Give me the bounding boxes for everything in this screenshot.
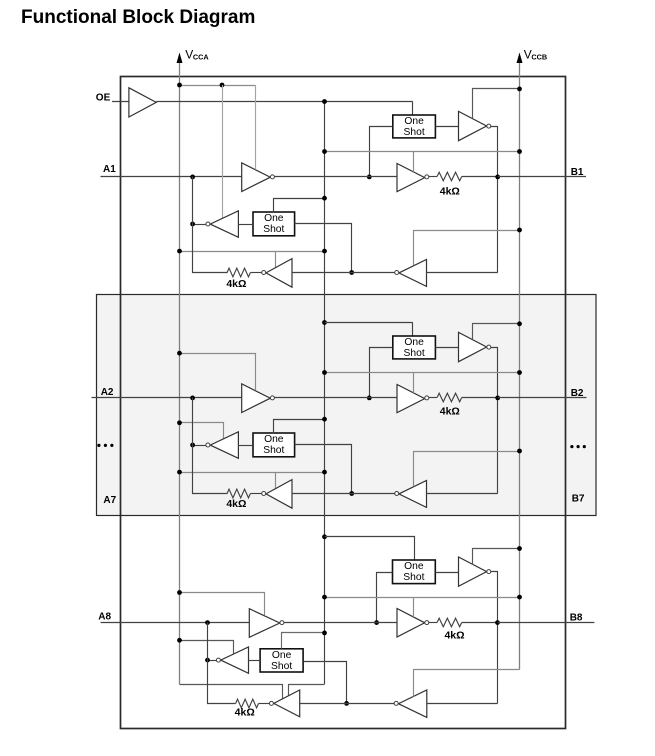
node junction — [190, 222, 195, 227]
svg-text:One: One — [264, 434, 284, 445]
node VCCA tap — [177, 420, 182, 425]
wire U1B output to U1E — [292, 272, 395, 274]
node VCCA tap — [177, 249, 182, 254]
svg-text:B1: B1 — [571, 167, 584, 178]
node B internal — [495, 396, 500, 401]
pin wire A2 — [92, 397, 242, 399]
buffer U2B B-side input — [399, 481, 427, 508]
node VCCB tap — [517, 449, 522, 454]
wire OS3 to U2F — [238, 445, 253, 447]
node VCCA tap — [177, 470, 182, 475]
wire U8C to resistor R15 — [429, 622, 437, 624]
wire down into OS2 top — [412, 102, 414, 116]
enable wire OE branch — [289, 685, 325, 696]
pin wire A8 — [101, 622, 250, 624]
svg-text:One: One — [404, 116, 424, 127]
buffer U1F one-shot driver — [210, 211, 238, 238]
node VCCB tap — [517, 370, 522, 375]
resistor R4 4k — [227, 489, 250, 498]
one-shot OS15 — [260, 649, 303, 672]
node OE tap — [322, 470, 327, 475]
pin wire A1 — [101, 176, 242, 178]
resistor R1 4k — [437, 172, 462, 181]
node junction — [349, 270, 354, 275]
wire down into U2C — [413, 373, 415, 393]
wire OS2 to U1D — [435, 126, 458, 128]
resistor R2 4k — [227, 268, 250, 277]
buffer U8C B-side driver — [397, 609, 425, 638]
wire B line to pin B1 — [498, 176, 586, 178]
OE input wire — [112, 101, 129, 103]
wire U2C to resistor R3 — [429, 397, 437, 399]
node OE tap — [322, 196, 327, 201]
one-shot OS4 — [393, 336, 436, 359]
node VCCB tap — [517, 321, 522, 326]
inverting bubble U8C — [425, 621, 429, 625]
inverting bubble U2A — [270, 396, 274, 400]
wire R4 to A node — [193, 398, 228, 494]
inverting bubble U2F — [206, 443, 210, 447]
svg-text:Shot: Shot — [404, 127, 425, 138]
wire down into U1E — [275, 251, 277, 268]
resistor R3 4k — [437, 393, 462, 402]
wire U8F output to A node — [208, 660, 217, 662]
inverting bubble U8F — [216, 658, 220, 662]
svg-text:4kΩ: 4kΩ — [444, 629, 464, 641]
wire U1E to resistor R2 — [250, 272, 261, 274]
inverting bubble U8D — [487, 570, 491, 574]
node OE tap OS4 — [322, 320, 327, 325]
wire U8B output to OS15 input — [304, 662, 347, 704]
wire down into U2E — [275, 472, 277, 489]
VCCA supply wire to U8F — [180, 641, 234, 655]
buffer U2E A-side driver — [266, 480, 292, 509]
inverting bubble U1C — [425, 175, 429, 179]
inverting bubble U1F — [206, 222, 210, 226]
VCCB supply wire to U1D — [473, 89, 520, 119]
wire OS4 to U2D — [435, 347, 458, 349]
wire U2F output to A node — [193, 445, 206, 447]
wire OS1 to U1F — [238, 224, 253, 226]
shaded repeated-channel block A2-A7/B2-B7 — [97, 295, 597, 516]
VCCB supply wire to U2B — [414, 452, 520, 487]
wire R15 to B node — [462, 622, 498, 624]
one-shot OS2 — [393, 115, 436, 138]
wire U8D output to B node — [491, 572, 498, 704]
svg-text:A8: A8 — [98, 612, 111, 623]
inverting bubble U1B — [395, 271, 399, 275]
buffer U8B B-side input — [398, 690, 426, 717]
VCCB rail — [519, 62, 521, 670]
enable wire VCCA branch — [180, 685, 283, 699]
wire OE to OS4 top — [325, 322, 413, 324]
inverting bubble U1A — [270, 175, 274, 179]
svg-text:One: One — [404, 337, 424, 348]
svg-text:Shot: Shot — [403, 572, 424, 583]
VCCA arrow — [177, 53, 183, 64]
svg-text:CCB: CCB — [531, 53, 547, 62]
VCCA supply wire to U2F — [180, 423, 224, 439]
svg-text:4kΩ: 4kΩ — [440, 406, 460, 418]
wire R2 to A node — [193, 177, 228, 273]
wire U8A output to OS16 input — [377, 573, 393, 623]
svg-text:4kΩ: 4kΩ — [226, 278, 246, 290]
wire B node to U1B input — [427, 272, 498, 274]
node VCCA tap — [177, 83, 182, 88]
node A internal — [205, 620, 210, 625]
ellipsis A-side — [97, 444, 100, 447]
svg-text:Shot: Shot — [271, 661, 292, 672]
node A internal — [190, 175, 195, 180]
node VCCA tap — [177, 638, 182, 643]
VCCA rail — [179, 62, 181, 684]
buffer U8E A-side driver — [274, 690, 300, 717]
enable wire OE to OS3 top — [274, 420, 325, 434]
inverting bubble U1E — [262, 271, 266, 275]
outer functional block border — [121, 77, 566, 729]
wire OS16 to U8D — [435, 572, 458, 574]
inverting bubble U8E — [269, 701, 273, 705]
buffer U8D one-shot driver — [459, 557, 487, 586]
wire U2A output to OS4 input — [370, 348, 393, 398]
node A branch — [367, 175, 372, 180]
wire down into U1C — [413, 152, 415, 172]
node A internal — [190, 396, 195, 401]
svg-text:Shot: Shot — [263, 224, 284, 235]
svg-text:B8: B8 — [570, 612, 583, 623]
one-shot OS3 — [253, 433, 295, 457]
inverting bubble U2D — [487, 345, 491, 349]
buffer U1A A-side input — [242, 163, 271, 192]
wire down into U8C — [413, 597, 415, 617]
VCCA supply wire to U8A — [180, 593, 265, 616]
wire U1D output to B node — [491, 127, 498, 273]
wire U1C to resistor R1 — [429, 176, 437, 178]
node A branch — [374, 620, 379, 625]
wire OE to OS16 top — [325, 537, 415, 561]
wire B line to pin B2 — [498, 397, 587, 399]
wire U2D output to B node — [491, 348, 498, 494]
node junction — [190, 443, 195, 448]
buffer U1E A-side driver — [266, 259, 292, 288]
wire U1A output — [275, 176, 398, 178]
wire U1A output to OS2 input — [370, 127, 393, 177]
node junction — [349, 491, 354, 496]
ellipsis B-side — [570, 445, 573, 448]
wire B line to pin B8 — [498, 622, 595, 624]
enable wire to U1C — [325, 151, 520, 153]
svg-text:One: One — [264, 213, 284, 224]
node junction — [344, 701, 349, 706]
wire B node to U2B input — [427, 493, 498, 495]
svg-text:A1: A1 — [103, 164, 116, 175]
OE distribution wire to one-shot U2 — [156, 101, 413, 103]
buffer U2D one-shot driver — [459, 332, 487, 361]
node VCCB tap — [517, 228, 522, 233]
svg-text:Shot: Shot — [263, 445, 284, 456]
buffer U1C B-side driver — [397, 164, 425, 192]
resistor R16 4k — [236, 699, 259, 708]
wire U2B output to U2E — [292, 493, 395, 495]
node VCCA tap — [177, 590, 182, 595]
svg-text:A7: A7 — [103, 495, 116, 506]
svg-text:4kΩ: 4kΩ — [440, 186, 460, 198]
enable wire to U8C — [325, 597, 520, 599]
VCCB supply wire to U8D — [473, 549, 520, 565]
wire B node to U8B input — [427, 703, 498, 705]
node VCCB tap — [517, 87, 522, 92]
enable wire to U2C — [325, 372, 520, 374]
node VCCA tap — [177, 351, 182, 356]
inverting bubble U2C — [425, 396, 429, 400]
inverting bubble U8A — [280, 621, 284, 625]
inverting bubble U2B — [395, 492, 399, 496]
one-shot OS1 — [253, 212, 295, 236]
wire OS15 to U8F — [249, 660, 261, 662]
resistor R15 4k — [437, 618, 462, 627]
node VCCB tap — [517, 595, 522, 600]
VCCB arrow — [517, 53, 523, 64]
OE buffer — [129, 88, 156, 117]
VCCB supply wire to U8B — [414, 670, 520, 697]
svg-text:Shot: Shot — [404, 348, 425, 359]
svg-text:B2: B2 — [571, 388, 584, 399]
svg-text:One: One — [404, 561, 424, 572]
node junction — [205, 658, 210, 663]
VCCB supply wire to U1B — [414, 231, 520, 266]
wire U8A output — [284, 622, 397, 624]
supply drop to U1F — [222, 85, 224, 219]
node B internal — [495, 620, 500, 625]
VCCB supply wire to U2D — [473, 324, 520, 340]
node OE tap — [322, 249, 327, 254]
wire R16 to A node — [208, 623, 236, 704]
node VCCB tap — [517, 149, 522, 154]
wire U8B output to U8E — [300, 703, 394, 705]
svg-text:A2: A2 — [101, 387, 114, 398]
svg-text:OE: OE — [96, 92, 111, 103]
node OE bus start — [322, 99, 327, 104]
svg-text:4kΩ: 4kΩ — [226, 498, 246, 510]
node OE tap — [322, 631, 327, 636]
OE vertical distribution bus — [324, 102, 326, 685]
node VCCB tap — [517, 546, 522, 551]
VCCA top feed wire — [180, 85, 256, 87]
svg-text:CCA: CCA — [193, 53, 210, 62]
wire U2A output — [275, 397, 398, 399]
wire R1 to B node — [462, 176, 498, 178]
svg-text:B7: B7 — [572, 493, 585, 504]
VCCA supply wire to U2A — [180, 354, 256, 391]
node OE tap — [322, 370, 327, 375]
buffer U8F one-shot driver — [221, 647, 249, 673]
node B internal — [495, 175, 500, 180]
node A branch — [367, 396, 372, 401]
svg-text:Functional Block Diagram: Functional Block Diagram — [21, 7, 255, 28]
buffer U2C B-side driver — [397, 385, 425, 413]
wire U2B output to OS3 input — [295, 445, 352, 494]
buffer U8A A-side input — [249, 609, 279, 638]
enable wire VCCA to OE bus — [180, 251, 325, 253]
wire down into OS4 top — [412, 323, 414, 337]
inverting bubble U1D — [487, 124, 491, 128]
wire U2E to resistor R4 — [250, 493, 261, 495]
wire U1F output to A node — [193, 224, 206, 226]
enable wire OE to OS1 top — [274, 199, 325, 213]
enable wire VCCA to OE bus — [180, 472, 325, 474]
svg-text:4kΩ: 4kΩ — [235, 707, 255, 719]
node OE tap OS16 — [322, 534, 327, 539]
enable wire OE to OS15 top — [282, 633, 325, 649]
wire U8E to resistor R16 — [259, 703, 270, 705]
buffer U2F one-shot driver — [210, 432, 238, 459]
wire U1B output to OS1 input — [295, 224, 352, 273]
one-shot OS16 — [393, 560, 436, 584]
node OE tap — [322, 595, 327, 600]
svg-text:One: One — [272, 650, 292, 661]
inverting bubble U8B — [394, 701, 398, 705]
node OE tap — [322, 149, 327, 154]
node OE tap — [322, 417, 327, 422]
buffer U1B B-side input — [399, 260, 427, 287]
supply drop to U1A — [255, 85, 257, 170]
node feed branch — [220, 83, 225, 88]
inverting bubble U2E — [262, 492, 266, 496]
buffer U1D one-shot driver — [459, 111, 487, 140]
buffer U2A A-side input — [242, 384, 271, 413]
wire R3 to B node — [462, 397, 498, 399]
